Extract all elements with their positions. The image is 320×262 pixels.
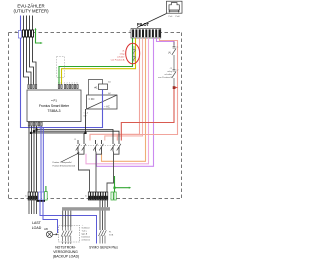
svg-text:→: →	[82, 225, 84, 227]
svg-text:LOAD: LOAD	[32, 226, 42, 230]
svg-text:NOTSTROM-: NOTSTROM-	[55, 245, 76, 249]
svg-text:#1: #1	[94, 86, 98, 90]
svg-text:4: 4	[72, 83, 73, 85]
svg-text:Schliesst: Schliesst	[82, 227, 90, 230]
svg-text:5: 5	[33, 83, 34, 85]
svg-text:(BACKUP LOAD): (BACKUP LOAD)	[53, 254, 79, 258]
svg-text:(A): (A)	[168, 52, 171, 55]
svg-text:HB: HB	[44, 227, 48, 231]
svg-text:entfernen: entfernen	[82, 239, 90, 242]
svg-text:von Position B: von Position B	[158, 76, 173, 79]
svg-text:von Position A: von Position A	[111, 59, 125, 62]
svg-text:5x: 5x	[85, 196, 87, 198]
svg-text:Fronius Smart Meter: Fronius Smart Meter	[39, 104, 70, 108]
svg-text:SYMO GEN24 Plus: SYMO GEN24 Plus	[89, 245, 118, 249]
svg-text:N: N	[15, 30, 17, 34]
svg-text:3: 3	[69, 83, 70, 85]
svg-text:Position 1 Netzparallel: Position 1 Netzparallel	[53, 161, 72, 164]
svg-text:VERSORGUNG: VERSORGUNG	[53, 250, 78, 254]
svg-text:1: 1	[64, 83, 65, 85]
svg-text:TS65A-3: TS65A-3	[47, 109, 60, 113]
svg-text:5x: 5x	[25, 196, 27, 198]
svg-text:schalter: schalter	[117, 56, 125, 59]
svg-text:T=0 s,: T=0 s,	[82, 231, 88, 233]
svg-text:7: 7	[35, 83, 36, 85]
svg-text:a2: a2	[176, 70, 178, 72]
svg-text:type A: type A	[82, 233, 88, 236]
svg-text:Detektion: Detektion	[82, 236, 90, 239]
svg-text:a1: a1	[176, 47, 178, 49]
svg-text:Position B Notstrombetrieb: Position B Notstrombetrieb	[53, 165, 76, 168]
svg-text:schalter: schalter	[164, 73, 172, 76]
svg-text:9: 9	[58, 83, 59, 85]
svg-text:LAST: LAST	[32, 221, 42, 225]
svg-text:0: 0	[61, 83, 62, 85]
svg-text:PILOT: PILOT	[137, 22, 150, 27]
svg-text:6: 6	[77, 83, 78, 85]
svg-text:= P1: = P1	[51, 99, 57, 103]
svg-text:5: 5	[74, 83, 75, 85]
svg-text:(UTILITY METER): (UTILITY METER)	[13, 9, 49, 14]
svg-text:= DC: = DC	[89, 97, 95, 101]
svg-text:1: 1	[28, 83, 29, 85]
svg-text:XOB: XOB	[109, 235, 114, 237]
svg-text:3: 3	[30, 83, 31, 85]
svg-text:~ AC: ~ AC	[104, 105, 110, 109]
svg-text:kW: kW	[84, 116, 87, 118]
svg-text:2: 2	[67, 83, 68, 85]
